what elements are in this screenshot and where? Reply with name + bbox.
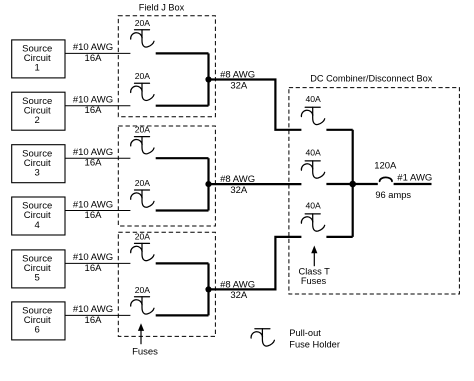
svg-text:Field J Box: Field J Box	[139, 3, 185, 13]
svg-text:#8 AWG: #8 AWG	[220, 174, 255, 185]
fuse 20A circuit 1	[131, 30, 154, 47]
svg-text:32A: 32A	[230, 185, 248, 196]
svg-text:16A: 16A	[85, 263, 103, 274]
fuse 40A 3	[301, 214, 324, 231]
Class T Fuses label	[299, 266, 331, 286]
120A pull-out fuse holder symbol (arc)	[380, 177, 392, 181]
svg-text:Pull-out: Pull-out	[289, 328, 321, 338]
wire fuse 40A 2 output	[326, 183, 352, 185]
svg-text:Class T: Class T	[299, 266, 331, 276]
svg-text:16A: 16A	[85, 210, 103, 221]
legend pull-out fuse holder symbol	[251, 329, 274, 346]
svg-text:20A: 20A	[135, 178, 151, 188]
source circuit box 6	[12, 302, 65, 340]
svg-text:Fuses: Fuses	[132, 346, 158, 357]
svg-text:#8 AWG: #8 AWG	[220, 279, 255, 290]
source circuit box 1	[12, 40, 65, 78]
fuse 40A 1	[301, 107, 324, 124]
svg-text:2: 2	[35, 115, 40, 126]
wire source 1 to fuse, #10 AWG 16A	[65, 42, 130, 64]
wire fuse 4 output	[156, 209, 209, 211]
bus pair 3 vertical	[207, 263, 209, 315]
DC bus vertical	[352, 130, 354, 237]
svg-text:DC Combiner/Disconnect Box: DC Combiner/Disconnect Box	[310, 73, 432, 83]
junction node DC output	[349, 181, 356, 188]
wire fuse 3 output	[156, 157, 209, 159]
svg-text:40A: 40A	[305, 94, 321, 104]
source circuit box 2	[12, 92, 65, 130]
field j box dashed enclosure 1	[118, 16, 215, 117]
wire DC output left segment, 120A	[353, 160, 397, 184]
svg-text:#10 AWG: #10 AWG	[73, 95, 113, 106]
wire source 3 to fuse, #10 AWG 16A	[65, 147, 130, 169]
svg-text:#10 AWG: #10 AWG	[73, 147, 113, 158]
svg-text:120A: 120A	[374, 160, 397, 171]
wire fuse 6 output	[156, 314, 209, 316]
svg-text:#10 AWG: #10 AWG	[73, 304, 113, 315]
fuse 20A circuit 5	[131, 243, 154, 260]
legend label Pull-out Fuse Holder	[289, 328, 340, 349]
fuse 20A circuit 4	[131, 190, 154, 207]
svg-text:3: 3	[35, 168, 40, 179]
wire fuse 2 output	[156, 105, 209, 107]
svg-text:Fuses: Fuses	[301, 276, 327, 286]
svg-text:#10 AWG: #10 AWG	[73, 252, 113, 263]
svg-text:16A: 16A	[85, 158, 103, 169]
junction node pair 3	[205, 286, 211, 292]
wire source 4 to fuse, #10 AWG 16A	[65, 199, 130, 221]
bus pair 1 vertical	[207, 53, 209, 105]
wire fuse 40A 3 output	[326, 236, 352, 238]
svg-text:#10 AWG: #10 AWG	[73, 42, 113, 53]
svg-text:96 amps: 96 amps	[375, 190, 411, 200]
svg-text:Fuse Holder: Fuse Holder	[289, 339, 340, 349]
wire pair 2 to DC box, #8 AWG 32A	[209, 174, 302, 196]
svg-text:20A: 20A	[135, 285, 151, 295]
wire fuse 40A 1 output	[326, 129, 352, 131]
wire fuse 1 output	[156, 52, 209, 54]
svg-text:16A: 16A	[85, 315, 103, 326]
svg-text:40A: 40A	[305, 201, 321, 211]
wire DC output right segment, #1 AWG 96 amps	[375, 172, 432, 200]
fuse 20A circuit 3	[131, 137, 154, 154]
svg-text:32A: 32A	[230, 290, 248, 301]
svg-text:4: 4	[35, 220, 40, 231]
wire pair 1 to DC box, #8 AWG 32A	[209, 70, 302, 130]
wire pair 3 to DC box, #8 AWG 32A	[209, 237, 302, 301]
wire source 5 to fuse, #10 AWG 16A	[65, 252, 130, 274]
field j box dashed enclosure 2	[118, 126, 215, 226]
svg-text:32A: 32A	[230, 80, 248, 91]
source circuit box 3	[12, 145, 65, 183]
svg-text:#1 AWG: #1 AWG	[397, 172, 432, 183]
DC combiner dashed enclosure	[289, 88, 460, 294]
svg-text:6: 6	[35, 325, 40, 336]
svg-text:5: 5	[35, 273, 40, 284]
svg-text:20A: 20A	[135, 18, 151, 28]
wire source 2 to fuse, #10 AWG 16A	[65, 95, 130, 117]
svg-text:40A: 40A	[305, 148, 321, 158]
svg-text:#8 AWG: #8 AWG	[220, 70, 255, 81]
source circuit box 5	[12, 250, 65, 288]
junction node pair 1	[205, 76, 211, 82]
Fuses arrow	[138, 323, 144, 344]
bus pair 2 vertical	[207, 158, 209, 210]
svg-text:16A: 16A	[85, 105, 103, 116]
svg-text:1: 1	[35, 63, 40, 74]
Class T Fuses arrow	[311, 246, 317, 267]
source circuit box 4	[12, 197, 65, 235]
svg-text:#10 AWG: #10 AWG	[73, 199, 113, 210]
svg-text:20A: 20A	[135, 231, 151, 241]
fuse 20A circuit 6	[131, 297, 154, 314]
fuse 40A 2	[301, 161, 324, 178]
svg-text:16A: 16A	[85, 53, 103, 64]
svg-text:20A: 20A	[135, 125, 151, 135]
field j box dashed enclosure 3	[118, 232, 215, 336]
fuse 20A circuit 2	[131, 83, 154, 100]
svg-text:20A: 20A	[135, 71, 151, 81]
wire fuse 5 output	[156, 262, 209, 264]
wire source 6 to fuse, #10 AWG 16A	[65, 304, 130, 326]
junction node pair 2	[205, 181, 211, 187]
